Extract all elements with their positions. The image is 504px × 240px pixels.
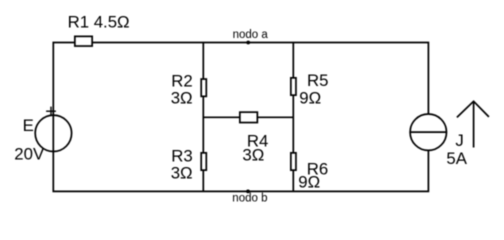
svg-text:nodo b: nodo b — [232, 193, 267, 205]
svg-text:9Ω: 9Ω — [298, 172, 320, 191]
svg-text:5A: 5A — [446, 149, 467, 168]
svg-text:E: E — [23, 116, 34, 135]
svg-text:nodo a: nodo a — [233, 29, 269, 41]
svg-text:20V: 20V — [14, 144, 45, 163]
svg-text:9Ω: 9Ω — [299, 89, 321, 108]
svg-text:3Ω: 3Ω — [171, 164, 193, 183]
svg-text:R1 4.5Ω: R1 4.5Ω — [68, 12, 130, 31]
svg-text:3Ω: 3Ω — [242, 145, 264, 164]
svg-text:3Ω: 3Ω — [171, 89, 193, 108]
svg-text:R5: R5 — [307, 71, 328, 90]
svg-text:J: J — [455, 131, 463, 150]
